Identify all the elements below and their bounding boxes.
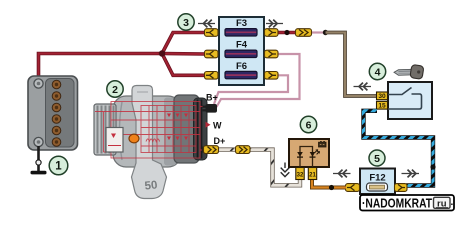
ignition switch contacts bbox=[388, 88, 422, 110]
wire: pink link to brown splice bbox=[311, 31, 326, 33]
svg-text:·NADOMKRAT: ·NADOMKRAT bbox=[362, 196, 432, 210]
voltage regulator box bbox=[106, 128, 123, 153]
ground symbol (cluster wire) bbox=[281, 163, 290, 177]
cluster internal wiring bbox=[300, 147, 313, 168]
wire: pink F6 output to B+ bbox=[214, 75, 288, 104]
alternator rear housing bbox=[174, 95, 199, 163]
svg-text:W: W bbox=[213, 121, 222, 131]
terminal W arrow bbox=[206, 122, 211, 128]
label circle 3 (fuse box) bbox=[178, 14, 194, 30]
disconnect symbol right of F12 bbox=[402, 170, 420, 178]
cluster pin 21 bbox=[308, 168, 316, 180]
cluster pin 32 bbox=[296, 168, 304, 180]
fuse F12 box (5) bbox=[360, 169, 395, 195]
ignition switch (4) box bbox=[388, 82, 432, 119]
fuse F6 bbox=[225, 71, 257, 78]
label circle 5 (fuse F12) bbox=[369, 150, 385, 166]
ignition key icon bbox=[394, 64, 424, 79]
wire: junction to fuse F6 bbox=[162, 54, 205, 76]
bolt on ground wire bbox=[36, 160, 41, 165]
B+ terminal connector (black) bbox=[203, 104, 218, 113]
disconnect symbol on brown wire bbox=[354, 83, 372, 91]
connector F3 output bbox=[265, 29, 279, 37]
svg-text:3: 3 bbox=[183, 17, 189, 29]
svg-text:30: 30 bbox=[378, 93, 386, 100]
D+ socket (black) bbox=[202, 147, 207, 153]
svg-text:D+: D+ bbox=[214, 136, 226, 146]
wire: battery negative to ground bbox=[37, 146, 40, 171]
wire: junction to fuse F3 bbox=[162, 33, 205, 54]
svg-text:4: 4 bbox=[375, 67, 381, 79]
connector pair on F3 output wire bbox=[296, 29, 312, 37]
fuse F4 bbox=[225, 50, 257, 57]
connector F4 output bbox=[265, 50, 279, 58]
wire: blue ignition 15 to F12 bbox=[364, 111, 434, 186]
svg-text:F6: F6 bbox=[236, 61, 247, 72]
label circle 1 (battery) bbox=[49, 156, 68, 175]
connector pair on D+ wire (2) bbox=[236, 146, 251, 154]
svg-text:F4: F4 bbox=[236, 40, 248, 51]
instrument cluster block (6) bbox=[289, 139, 329, 167]
label circle 2 (alternator) bbox=[107, 81, 123, 97]
diode VD in cluster bbox=[297, 152, 303, 157]
fuse F3 bbox=[225, 29, 257, 36]
label circle 4 (ignition switch) bbox=[369, 63, 385, 79]
ignition pin 15 bbox=[377, 101, 388, 109]
watermark NADOMKRAT.ru plate bbox=[360, 195, 454, 211]
svg-text:5: 5 bbox=[374, 153, 380, 165]
alternator front mounting strap and foot bbox=[132, 86, 167, 199]
connector F12 input bbox=[346, 184, 360, 192]
connector F3 input bbox=[205, 29, 219, 37]
junction dot: splice to brown wire bbox=[323, 30, 328, 35]
ground (battery) bbox=[31, 171, 47, 175]
wire: orange cluster to F12 bbox=[312, 178, 346, 188]
junction dot: battery feed split bbox=[159, 50, 165, 56]
ignition pin 30 bbox=[377, 92, 388, 100]
battery positive terminal bbox=[34, 79, 43, 88]
disconnect symbol left of F12 bbox=[333, 170, 351, 178]
alternator G1 (2): front housing body bbox=[113, 96, 181, 167]
wire: pink F4 output to B+ bbox=[217, 54, 300, 107]
svg-text:1: 1 bbox=[55, 161, 62, 173]
rotor slip-ring (orange oval) bbox=[129, 134, 139, 143]
svg-text:·: · bbox=[451, 200, 454, 211]
disconnect symbol left of fuse box bbox=[198, 20, 215, 28]
svg-text:B+: B+ bbox=[206, 93, 218, 103]
wire: D+ white wire to instrument cluster bbox=[219, 150, 300, 186]
junction dot on orange wire bbox=[329, 185, 334, 190]
alternator pulley bbox=[94, 104, 116, 155]
svg-text:F12: F12 bbox=[369, 173, 385, 184]
alternator rectifier diodes (red) bbox=[167, 114, 188, 141]
fuse F12 element bbox=[367, 183, 388, 191]
svg-text:F3: F3 bbox=[236, 18, 247, 29]
alternator internal schematic (red overlay) bbox=[95, 102, 207, 159]
wire: battery positive to junction bbox=[39, 54, 163, 83]
charge warning lamp LED in cluster bbox=[310, 150, 320, 158]
svg-text:6: 6 bbox=[306, 120, 312, 132]
wire: brown to ignition switch pin 30 bbox=[326, 33, 378, 97]
label circle 6 (instrument cluster) bbox=[300, 116, 316, 132]
wire: F3 output (red) bbox=[277, 31, 296, 35]
svg-text:32: 32 bbox=[297, 172, 304, 178]
alternator rear cap bbox=[194, 98, 208, 160]
battery cell caps bbox=[52, 80, 61, 146]
junction dot on F3 output bbox=[284, 30, 289, 35]
connector F4 input bbox=[205, 50, 219, 58]
connector pair on D+ wire (1) bbox=[204, 146, 219, 154]
junction dot on blue wire bbox=[430, 164, 435, 169]
battery icon in cluster bbox=[319, 141, 327, 147]
wire: junction to fuse F4 bbox=[162, 52, 205, 56]
svg-text:21: 21 bbox=[309, 172, 316, 178]
connector F12 output bbox=[395, 184, 408, 192]
fuse box (3) bbox=[219, 17, 264, 85]
disconnect symbol right of fuse box bbox=[266, 20, 283, 28]
connector F6 output bbox=[265, 72, 279, 80]
battery negative terminal bbox=[34, 137, 43, 146]
svg-text:50: 50 bbox=[144, 179, 158, 192]
svg-text:2: 2 bbox=[112, 84, 118, 96]
battery GB1 body bbox=[28, 76, 78, 150]
svg-text:15: 15 bbox=[378, 103, 386, 110]
connector F6 input bbox=[205, 72, 219, 80]
